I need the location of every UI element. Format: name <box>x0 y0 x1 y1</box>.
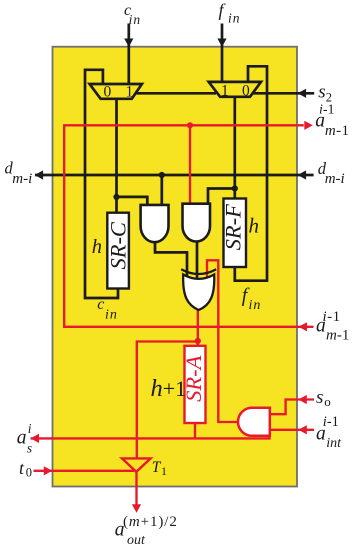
svg-text:int: int <box>326 436 342 451</box>
junction dot on d line <box>159 172 165 178</box>
svg-text:m-i: m-i <box>12 171 32 187</box>
svg-text:1: 1 <box>126 83 134 100</box>
junction dot red on XOR output <box>195 338 201 344</box>
arrowhead t_0 in <box>44 466 53 475</box>
arrowhead f_in <box>217 39 226 48</box>
arrowhead a_m-1 in <box>299 322 308 331</box>
wire f_in vertical <box>221 24 224 84</box>
svg-text:h: h <box>92 236 102 258</box>
svg-text:i: i <box>28 421 32 436</box>
wire a_int input line <box>270 429 315 431</box>
wire SR-C feedback loop to left mux input 0 <box>85 70 118 298</box>
svg-text:a: a <box>115 519 125 540</box>
arrowhead d_m-i right in <box>298 170 307 179</box>
svg-text:SR-C: SR-C <box>106 221 131 269</box>
svg-text:f: f <box>219 0 227 20</box>
svg-text:in: in <box>228 10 241 25</box>
wire s_o input line <box>270 400 314 415</box>
svg-text:m-1: m-1 <box>325 123 350 139</box>
xor-gate body <box>183 275 214 311</box>
multiplexer MUX right (1 0) <box>209 82 261 97</box>
svg-text:1: 1 <box>221 83 229 100</box>
svg-text:t: t <box>19 458 25 478</box>
arrowhead s_2 <box>298 89 307 98</box>
wire left mux output to SR-C top <box>115 99 118 213</box>
wire red branch from a_m-1 line down to G2 left input <box>189 125 191 205</box>
svg-text:s: s <box>27 441 32 456</box>
svg-text:SR-F: SR-F <box>221 204 246 250</box>
svg-text:out: out <box>127 533 146 548</box>
svg-text:a: a <box>316 316 326 337</box>
svg-text:(m+1)/2: (m+1)/2 <box>123 514 178 530</box>
svg-text:s: s <box>316 387 323 408</box>
wire select s2 segment right of right mux <box>252 92 314 95</box>
buffer T1 triangle <box>122 458 151 471</box>
junction dot red on a_m-1 line <box>187 122 193 128</box>
xor-gate extra input arc <box>181 269 216 274</box>
wire c_in vertical <box>127 24 130 86</box>
svg-text:m-1: m-1 <box>326 328 349 344</box>
wire a_m-1 pass-through: input at y=328 loops up left side to output y=125 <box>64 125 313 326</box>
svg-text:1: 1 <box>161 464 167 478</box>
svg-text:in: in <box>105 307 118 322</box>
svg-text:SR-A: SR-A <box>181 355 206 401</box>
wire branch from mux output to AND gate G1 left input <box>117 197 148 206</box>
arrowhead a_m-1 out (right) <box>304 121 313 130</box>
wire SR-A output stub <box>194 423 196 438</box>
wire t_0 input line <box>34 470 135 472</box>
wire a_s output line <box>31 430 270 439</box>
svg-text:0: 0 <box>104 84 112 101</box>
wire from d line junction to G1 right input <box>160 175 163 206</box>
svg-text:h: h <box>249 214 260 238</box>
wire G1 output to XOR left input <box>155 242 187 279</box>
arrowhead a_int <box>298 425 307 434</box>
svg-text:s: s <box>318 82 325 103</box>
wire d_m-i horizontal line <box>35 174 314 177</box>
wire SR-F feedback loop to right mux input 0 <box>235 66 267 280</box>
wire AND gate T output up to XOR right input <box>207 260 240 422</box>
wire branch from XOR output to buffer T1 <box>137 342 198 459</box>
shift register SR-A box <box>185 346 206 423</box>
wire T1 output to a_out <box>135 472 137 506</box>
svg-text:m-i: m-i <box>325 171 345 187</box>
junction dot on mux output / G1 branch <box>113 194 119 200</box>
wire right mux output to SR-F top <box>233 97 236 199</box>
arrowhead c_in <box>124 39 133 48</box>
arrowhead a_out down <box>132 504 141 513</box>
svg-text:in: in <box>249 298 262 313</box>
cell body yellow box <box>53 47 298 487</box>
svg-text:0: 0 <box>242 83 250 100</box>
arrowhead d_m-i left out <box>35 170 44 179</box>
arrowhead s_o <box>298 395 307 404</box>
svg-text:o: o <box>324 394 331 409</box>
wire branch to AND gate G2 right input <box>208 189 235 206</box>
svg-text:a: a <box>316 423 326 444</box>
shift register SR-F box <box>224 199 247 268</box>
wire XOR output down to SR-A <box>197 308 199 346</box>
shift register SR-C box <box>107 213 129 289</box>
svg-text:a: a <box>17 428 27 449</box>
multiplexer MUX left (0 1) <box>90 84 142 99</box>
svg-text:0: 0 <box>26 466 32 480</box>
and-gate T (red, pointing left) <box>238 408 270 436</box>
svg-text:a: a <box>315 111 325 132</box>
wire select s2 segment between muxes <box>135 92 216 95</box>
svg-text:in: in <box>129 12 142 27</box>
svg-text:c: c <box>97 296 104 313</box>
arrowhead a_s out <box>31 434 40 443</box>
junction dot on SR-F input <box>232 185 238 191</box>
and-gate G1 <box>141 205 169 242</box>
and-gate G2 <box>183 204 211 242</box>
wire G2 output to XOR middle input <box>196 242 199 280</box>
